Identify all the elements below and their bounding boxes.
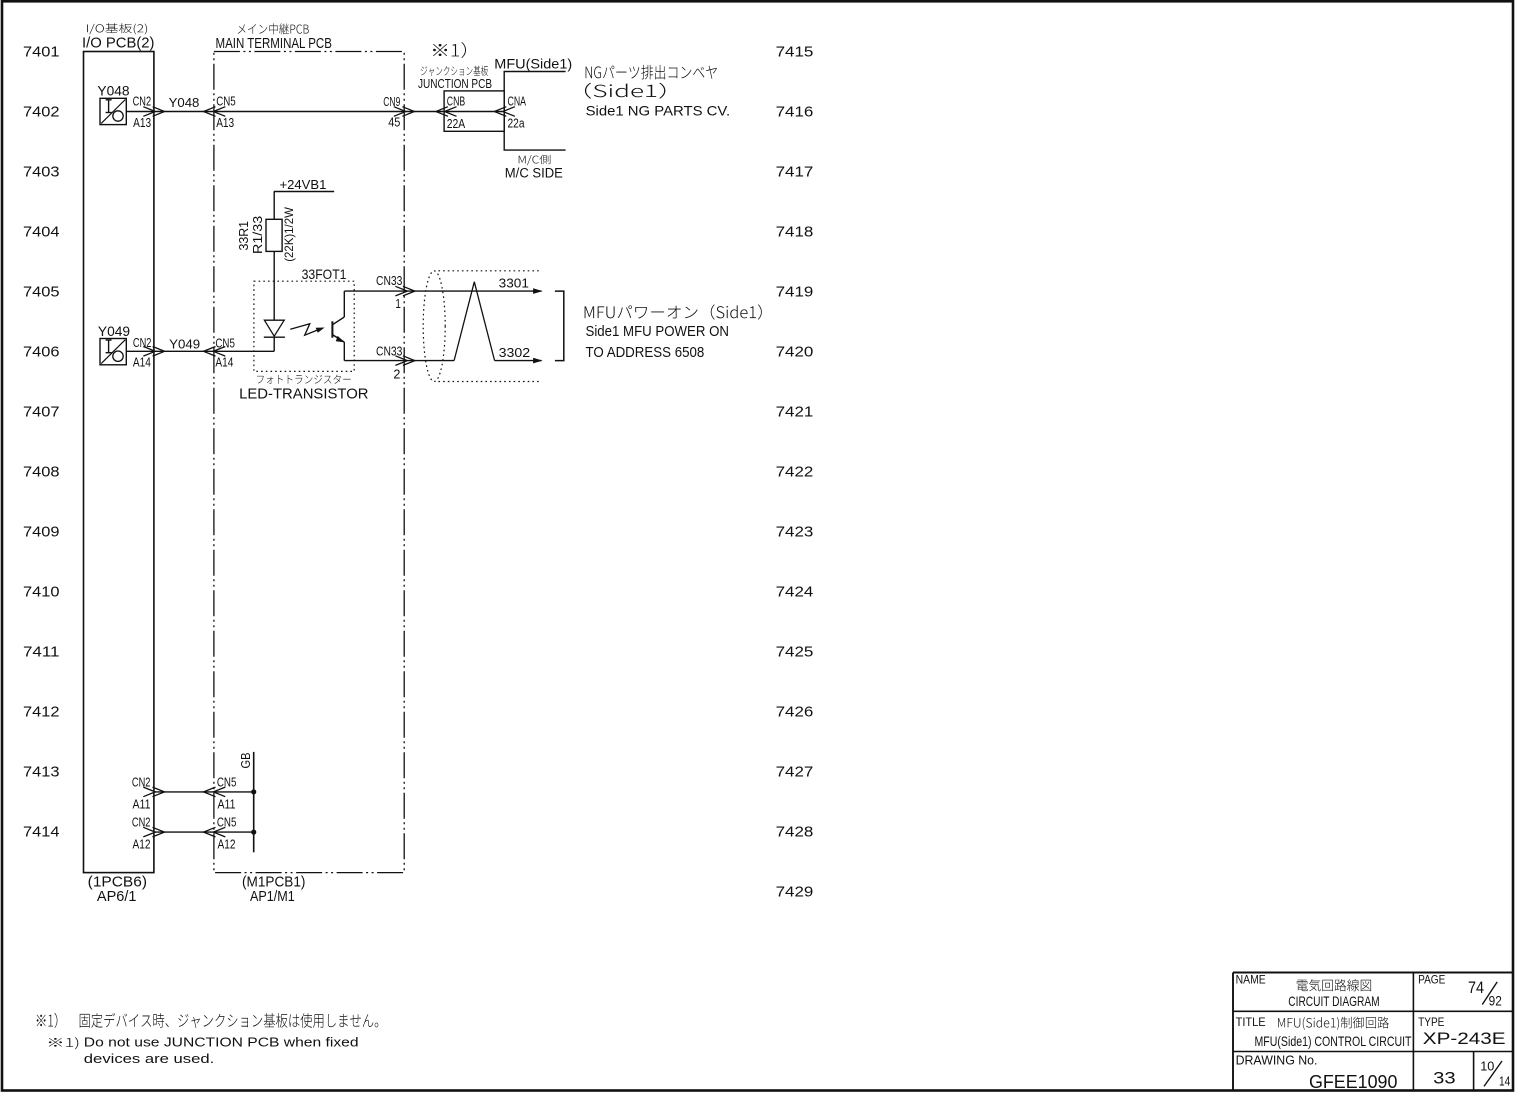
- photo-transistor of opto-coupler: [331, 321, 333, 337]
- svg-text:22a: 22a: [508, 115, 526, 130]
- connector CN5 pin A14 (chevrons): [204, 347, 216, 357]
- shield dotted lines: [438, 270, 539, 272]
- svg-text:MFU(Side1) CONTROL CIRCUIT: MFU(Side1) CONTROL CIRCUIT: [1255, 1033, 1412, 1049]
- destination bracket: [555, 291, 564, 361]
- svg-text:A11: A11: [133, 797, 151, 812]
- svg-text:7412: 7412: [23, 704, 60, 721]
- connector CN2 pin A13 (chevrons): [143, 107, 155, 117]
- svg-text:TYPE: TYPE: [1418, 1017, 1445, 1029]
- svg-text:7417: 7417: [776, 164, 814, 181]
- connector CNA pin 22a (chevrons): [494, 107, 506, 117]
- svg-text:7419: 7419: [776, 284, 814, 301]
- svg-text:Y049: Y049: [169, 336, 200, 351]
- connector CN2 pin A12 (chevrons): [143, 827, 155, 837]
- svg-text:7416: 7416: [776, 104, 814, 121]
- svg-text:7427: 7427: [776, 764, 814, 781]
- title block: [1233, 972, 1513, 974]
- note line 1 (Japanese): [37, 1013, 379, 1028]
- svg-text:Side1 MFU POWER ON: Side1 MFU POWER ON: [586, 323, 730, 340]
- svg-text:33: 33: [1433, 1069, 1456, 1088]
- svg-text:CN9: CN9: [383, 94, 400, 109]
- svg-text:CN2: CN2: [132, 815, 151, 830]
- junction dot A11-GB: [251, 789, 256, 794]
- label I/O基板(2): [87, 23, 147, 34]
- svg-text:GB: GB: [238, 753, 253, 769]
- svg-text:Y049: Y049: [98, 323, 130, 339]
- connector CN33 pin 1 (chevrons): [395, 286, 407, 296]
- svg-text:74: 74: [1468, 978, 1484, 997]
- svg-text:7426: 7426: [776, 704, 814, 721]
- svg-text:1: 1: [395, 296, 401, 311]
- label MFUパワーオン（Side1）: [585, 304, 762, 319]
- svg-text:7411: 7411: [23, 644, 60, 661]
- svg-text:7415: 7415: [776, 44, 814, 61]
- svg-text:7405: 7405: [23, 284, 60, 301]
- svg-text:AP1/M1: AP1/M1: [250, 888, 295, 905]
- GB bus line: [253, 752, 255, 852]
- svg-text:LED-TRANSISTOR: LED-TRANSISTOR: [239, 386, 369, 403]
- svg-text:7425: 7425: [776, 644, 814, 661]
- svg-text:2: 2: [393, 367, 400, 382]
- svg-text:45: 45: [388, 114, 400, 129]
- svg-text:A13: A13: [216, 115, 234, 130]
- svg-text:Side1 NG PARTS CV.: Side1 NG PARTS CV.: [586, 103, 731, 119]
- svg-text:TITLE: TITLE: [1236, 1017, 1266, 1029]
- svg-text:CN2: CN2: [133, 94, 152, 109]
- wire CN2/A11 to GB: [154, 791, 254, 793]
- svg-text:7421: 7421: [776, 404, 814, 421]
- wire CN2/A12 to GB: [154, 831, 254, 833]
- svg-text:JUNCTION PCB: JUNCTION PCB: [418, 76, 492, 91]
- svg-text:14: 14: [1499, 1073, 1510, 1088]
- resistor 33R1 R1/33 (22K)1/2W: [266, 219, 282, 251]
- label ジャンクション基板: [421, 66, 488, 76]
- connector CN2 pin A11 (chevrons): [143, 787, 155, 797]
- svg-text:TO ADDRESS 6508: TO ADDRESS 6508: [586, 344, 705, 361]
- svg-text:A13: A13: [133, 115, 151, 130]
- junction PCB box: [444, 91, 504, 131]
- svg-text:CN33: CN33: [376, 344, 402, 359]
- svg-text:Y048: Y048: [169, 95, 200, 110]
- note line 2: [49, 1037, 78, 1049]
- svg-text:A11: A11: [218, 797, 236, 812]
- M/C side bracket: [504, 72, 565, 151]
- twisted pair crossover: [454, 282, 495, 361]
- svg-text:A14: A14: [133, 355, 151, 370]
- svg-text:7413: 7413: [23, 764, 60, 781]
- collector wire to CN33 pin 1: [343, 291, 345, 317]
- connector CN2 pin A14 (chevrons): [143, 347, 155, 357]
- svg-text:A12: A12: [133, 837, 151, 852]
- svg-text:AP6/1: AP6/1: [97, 888, 137, 905]
- svg-text:7410: 7410: [23, 584, 60, 601]
- light emission arrow: [290, 324, 318, 336]
- svg-text:devices are used.: devices are used.: [84, 1051, 215, 1066]
- svg-text:GFEE1090: GFEE1090: [1309, 1072, 1397, 1092]
- connector CN5 pin A11 (chevrons): [204, 787, 216, 797]
- connector CN9 pin 45 (chevrons): [394, 107, 406, 117]
- svg-text:7407: 7407: [23, 404, 60, 421]
- svg-text:7423: 7423: [776, 524, 814, 541]
- svg-text:Do not use JUNCTION PCB when f: Do not use JUNCTION PCB when fixed: [84, 1035, 359, 1050]
- wire from +24VB1 to resistor: [273, 192, 275, 220]
- svg-text:7409: 7409: [23, 524, 60, 541]
- svg-text:33R1: 33R1: [236, 221, 251, 251]
- cable shield ellipse: [423, 271, 445, 382]
- svg-text:CNA: CNA: [508, 93, 527, 108]
- svg-text:7418: 7418: [776, 224, 814, 241]
- svg-text:3302: 3302: [499, 345, 531, 360]
- connector CNB pin 22A (chevrons): [436, 107, 448, 117]
- svg-text:7428: 7428: [776, 824, 814, 841]
- svg-text:CN5: CN5: [217, 815, 237, 830]
- svg-text:7420: 7420: [776, 344, 814, 361]
- svg-text:CN2: CN2: [132, 774, 151, 789]
- svg-text:CIRCUIT DIAGRAM: CIRCUIT DIAGRAM: [1288, 993, 1379, 1009]
- svg-text:3301: 3301: [499, 275, 529, 290]
- svg-text:7429: 7429: [776, 884, 814, 901]
- svg-text:Y048: Y048: [97, 83, 129, 99]
- label NGパーツ排出コンベヤ: [586, 65, 717, 80]
- svg-text:7403: 7403: [23, 164, 60, 181]
- svg-text:92: 92: [1489, 993, 1502, 1008]
- svg-text:M/C SIDE: M/C SIDE: [505, 166, 563, 181]
- svg-text:R1/33: R1/33: [250, 216, 265, 254]
- svg-text:7401: 7401: [23, 44, 60, 61]
- note mark ※1): [433, 42, 466, 58]
- svg-text:7414: 7414: [23, 824, 60, 841]
- label M/C側: [519, 155, 551, 165]
- svg-text:MAIN TERMINAL PCB: MAIN TERMINAL PCB: [216, 35, 332, 52]
- svg-text:7404: 7404: [23, 224, 60, 241]
- label （Side1）: [585, 83, 665, 99]
- svg-text:7402: 7402: [23, 104, 60, 121]
- svg-text:CN5: CN5: [215, 336, 235, 351]
- svg-text:NAME: NAME: [1236, 975, 1266, 987]
- main terminal PCB box (chain line): [214, 52, 404, 873]
- svg-text:CN5: CN5: [216, 93, 236, 108]
- svg-text:XP-243E: XP-243E: [1423, 1029, 1506, 1048]
- svg-text:+24VB1: +24VB1: [280, 177, 327, 192]
- wire resistor to LED anode: [273, 251, 275, 320]
- wire 7406: Y049 to LED cathode: [126, 350, 274, 352]
- wire LED cathode to CN5/A14: [273, 337, 275, 351]
- label フォトトランジスター: [257, 375, 351, 384]
- svg-text:MFU(Side1): MFU(Side1): [494, 56, 572, 72]
- svg-text:PAGE: PAGE: [1418, 975, 1446, 987]
- svg-text:7408: 7408: [23, 464, 60, 481]
- connector CN33 pin 2 (chevrons): [395, 356, 407, 366]
- svg-text:22A: 22A: [447, 116, 466, 131]
- svg-text:7406: 7406: [23, 344, 60, 361]
- svg-text:A12: A12: [218, 837, 236, 852]
- svg-text:33FOT1: 33FOT1: [302, 266, 347, 282]
- I/O PCB(2) board box: [84, 52, 154, 873]
- wire 7402: Y048 to CNA: [126, 111, 504, 113]
- svg-text:7424: 7424: [776, 584, 814, 601]
- svg-text:10: 10: [1480, 1058, 1494, 1073]
- label メイン中継PCB: [238, 23, 309, 34]
- junction dot A12-GB: [251, 830, 256, 835]
- svg-text:A14: A14: [215, 355, 233, 370]
- svg-text:7422: 7422: [776, 464, 814, 481]
- svg-text:(22K)1/2W: (22K)1/2W: [282, 206, 296, 261]
- LED of opto-coupler: [264, 320, 284, 336]
- svg-text:CN5: CN5: [217, 774, 237, 789]
- connector CN5 pin A13 (chevrons): [204, 107, 216, 117]
- svg-text:CN33: CN33: [376, 273, 402, 288]
- connector CN5 pin A12 (chevrons): [204, 827, 216, 837]
- emitter wire to CN33 pin 2: [343, 342, 345, 361]
- svg-text:CN2: CN2: [133, 335, 152, 350]
- svg-text:DRAWING No.: DRAWING No.: [1236, 1053, 1318, 1068]
- svg-text:CNB: CNB: [447, 93, 465, 108]
- svg-text:I/O PCB(2): I/O PCB(2): [82, 34, 155, 51]
